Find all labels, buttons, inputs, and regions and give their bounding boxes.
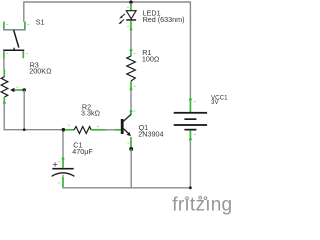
- LED1: [118, 0, 136, 30]
- node emitter junction: [129, 147, 133, 151]
- cathode bar: [126, 19, 136, 21]
- wire pot to base rail: [3, 104, 5, 130]
- svg-text:3.3kΩ: 3.3kΩ: [81, 109, 101, 118]
- node base junction dot: [62, 128, 66, 132]
- battery VCC1: [174, 98, 207, 141]
- base bar: [121, 119, 124, 134]
- lever: [14, 30, 19, 47]
- node top junction: [129, 0, 133, 4]
- resistor R1: [127, 49, 136, 91]
- svg-text:2N3904: 2N3904: [138, 130, 163, 139]
- wire battery to bottom rail: [189, 140, 191, 188]
- wire switch to pot: [3, 58, 5, 69]
- wiper arrow: [14, 89, 24, 91]
- svg-text:Red (633nm): Red (633nm): [143, 15, 185, 24]
- resistor R2: [65, 125, 121, 134]
- emitter wire green: [130, 137, 132, 148]
- svg-text:100Ω: 100Ω: [142, 54, 160, 63]
- node battery rail corner: [189, 186, 192, 189]
- collector diagonal: [123, 115, 130, 122]
- led triangle: [126, 11, 136, 19]
- svg-text:frıtzıng: frıtzıng: [172, 195, 232, 216]
- svg-text:470µF: 470µF: [72, 147, 93, 156]
- wire left drop to switch: [23, 1, 25, 22]
- wire R1 to Q1 collector: [130, 90, 132, 111]
- wire base rail horizontal: [4, 129, 63, 131]
- top bracket: [3, 29, 25, 31]
- wire top rail: [24, 1, 191, 3]
- wire emitter to bottom rail: [130, 149, 132, 188]
- transistor Q1: [121, 110, 136, 148]
- fritzing watermark: [172, 195, 232, 216]
- pin marks: [6, 23, 8, 26]
- svg-text:S1: S1: [36, 18, 45, 27]
- bottom bracket: [3, 49, 24, 51]
- switch S1: [3, 22, 29, 59]
- capacitor C1: [52, 132, 75, 188]
- svg-text:200KΩ: 200KΩ: [29, 67, 52, 76]
- wire wiper drop: [23, 90, 25, 130]
- potentiometer R3: [1, 69, 26, 104]
- wire bottom rail: [62, 187, 190, 189]
- wire LED to R1: [130, 30, 132, 50]
- emission arrows: [121, 14, 125, 17]
- svg-text:3V: 3V: [211, 99, 219, 106]
- wire battery top drop: [189, 1, 191, 98]
- emitter diagonal: [123, 129, 128, 134]
- node wiper junction: [23, 128, 26, 131]
